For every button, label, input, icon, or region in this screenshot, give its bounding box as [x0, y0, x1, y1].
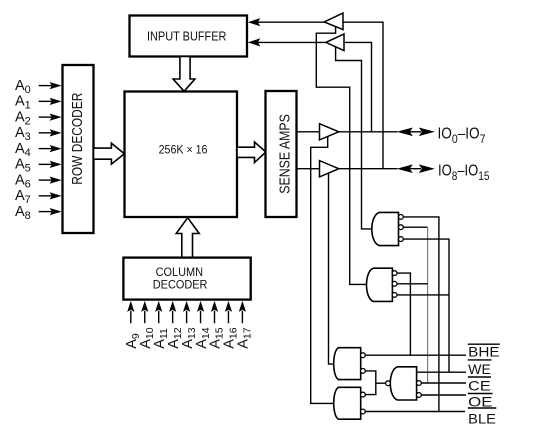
- net A7 label: [15, 188, 31, 206]
- gate G5: [390, 367, 416, 400]
- wire G5 input from jog: [376, 382, 386, 384]
- wire A8 into row decoder: [39, 208, 62, 215]
- wire A7 into row decoder: [39, 192, 62, 199]
- wire A5 into row decoder: [39, 161, 62, 168]
- hollow arrow row decoder to array: [94, 143, 125, 164]
- net OE label (active low): [468, 394, 493, 410]
- wire OE line from G5 pin2: [421, 394, 466, 396]
- svg-text:SENSE AMPS: SENSE AMPS: [277, 114, 294, 194]
- wire A16 into column decoder: [225, 301, 232, 323]
- net A17 label: [236, 327, 254, 349]
- net A15 label: [208, 327, 226, 349]
- wire U2 input from IO0-IO7 line: [344, 42, 372, 131]
- G4 input bubbles: [361, 392, 366, 414]
- net A2 label: [15, 109, 31, 127]
- wire G2 pin3 to WE bus: [397, 294, 449, 296]
- wire A14 into column decoder: [197, 301, 204, 323]
- wire BHE line from G3 pin1: [365, 354, 466, 356]
- net A3 label: [15, 125, 31, 143]
- gate G3: [334, 348, 361, 380]
- G5 output bubble left: [386, 381, 391, 386]
- buffer U3 (IO0-IO7 output driver): [297, 124, 339, 140]
- wire A13 into column decoder: [183, 301, 190, 323]
- wire A10 into column decoder: [141, 301, 148, 323]
- arrow IO8-IO15 bidirectional: [397, 164, 435, 173]
- net A10 label: [138, 327, 156, 349]
- wire BLE line from G4 pin2: [365, 411, 465, 413]
- net IO8-IO15 label: [438, 162, 490, 183]
- net A16 label: [222, 327, 240, 349]
- buffer U1 (upper input buffer driver): [324, 13, 343, 30]
- svg-text:ROW DECODER: ROW DECODER: [69, 93, 86, 185]
- wire A9 into column decoder: [127, 301, 134, 323]
- buffer U4 (IO8-IO15 output driver): [297, 161, 339, 177]
- net A6 label: [15, 172, 31, 190]
- G1 input bubbles: [399, 215, 404, 242]
- net BLE label (active low): [468, 408, 497, 426]
- svg-text:WE: WE: [468, 361, 491, 377]
- wire A12 into column decoder: [169, 301, 176, 323]
- net A1 label: [15, 94, 31, 112]
- net A5 label: [15, 157, 31, 175]
- svg-text:BHE: BHE: [468, 344, 499, 360]
- wire U1 enable from gate G2: [316, 27, 366, 285]
- G3 input bubbles: [361, 353, 366, 373]
- wire A11 into column decoder: [155, 301, 162, 323]
- svg-text:CE: CE: [468, 377, 490, 393]
- net A12 label: [166, 327, 184, 349]
- hollow arrow array to sense amps: [237, 142, 266, 163]
- net A9 label: [124, 333, 142, 349]
- wire A1 into row decoder: [39, 98, 62, 105]
- wire U4 enable from gate G3: [329, 173, 334, 364]
- gate G1: [372, 212, 399, 245]
- row decoder box: [63, 65, 94, 233]
- wire G2 pin2 to CE bus: [397, 283, 428, 285]
- net WE label (active low): [468, 360, 492, 377]
- buffer U2 (lower input buffer driver): [326, 34, 344, 51]
- svg-text:DECODER: DECODER: [153, 278, 208, 292]
- wire A17 into column decoder: [239, 301, 246, 323]
- hollow arrow input buffer to array: [173, 57, 195, 92]
- wire G3 pin2 to G4 pin1 jog: [365, 371, 376, 395]
- net A11 label: [152, 328, 170, 349]
- wire U3 enable from gate G4: [311, 137, 334, 404]
- net IO0-IO7 label: [438, 125, 486, 146]
- wire IO8-IO15 data line: [339, 168, 421, 170]
- wire IO15-8 data to input buffer: [248, 38, 326, 46]
- wire IO7-0 data to input buffer: [248, 18, 324, 26]
- svg-text:256K × 16: 256K × 16: [159, 145, 208, 157]
- wire G1 pin1 to vertical bus: [403, 217, 439, 412]
- wire CE line from G5 pin1: [421, 382, 466, 384]
- wire G2 pin1 to BHE line: [397, 273, 410, 355]
- wire A15 into column decoder: [211, 301, 218, 323]
- net BHE label (active low): [468, 344, 500, 360]
- input buffer box: [130, 16, 248, 57]
- wire IO0-IO7 data line: [339, 131, 421, 133]
- net CE label (active low): [468, 377, 491, 393]
- arrow IO0-IO7 bidirectional: [397, 128, 435, 137]
- svg-text:BLE: BLE: [468, 410, 496, 426]
- wire U2 enable from gate G1: [336, 47, 372, 229]
- wire A6 into row decoder: [39, 177, 62, 184]
- net A4 label: [15, 141, 31, 159]
- gate G2: [367, 268, 393, 301]
- net A0 label: [15, 78, 31, 96]
- net A13 label: [180, 327, 198, 349]
- wire A0 into row decoder: [39, 82, 62, 89]
- G2 input bubbles: [392, 271, 397, 298]
- gate G4: [334, 387, 361, 419]
- net A14 label: [194, 327, 212, 349]
- memory array box 256K x 16: [125, 92, 238, 218]
- G5 input bubbles right: [417, 381, 422, 398]
- wire G1 pin3 to WE bus: [403, 239, 449, 372]
- net A8 label: [15, 204, 31, 222]
- wire U1 input from IO8-IO15 line: [343, 22, 383, 169]
- wire A2 into row decoder: [39, 114, 62, 121]
- wire WE line from G5 top: [417, 371, 466, 373]
- wire G1 pin2 to CE bus: [403, 227, 427, 383]
- column decoder box: [123, 258, 250, 300]
- wire A3 into row decoder: [39, 129, 62, 136]
- hollow arrow column decoder to array: [176, 218, 199, 258]
- wire A4 into row decoder: [39, 145, 62, 152]
- sense amps box: [266, 91, 297, 217]
- svg-text:INPUT BUFFER: INPUT BUFFER: [147, 30, 226, 44]
